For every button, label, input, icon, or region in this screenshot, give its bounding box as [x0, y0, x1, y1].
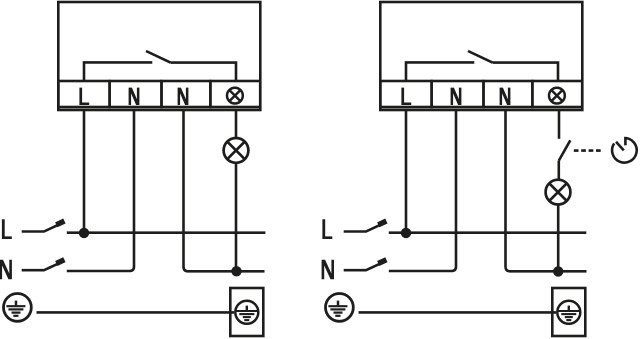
mains switch on N (right) — [344, 264, 380, 270]
wire from terminal N(2) down and to mains N switch (right) — [389, 110, 456, 271]
wire from lamp E1 down to node B — [235, 163, 238, 271]
lamp symbol on terminal X8 — [549, 88, 565, 104]
label N (terminal 2 U2) — [451, 88, 462, 105]
node C (junction dot on L right) — [401, 228, 411, 238]
earth terminal box PE2 — [230, 288, 263, 336]
label N (terminal 3 U2) — [500, 88, 511, 105]
terminal X8 (lamp output) box — [532, 81, 582, 107]
mains L wire — [67, 231, 266, 234]
label L (terminal) — [79, 88, 89, 105]
lamp symbol on terminal X4 — [227, 88, 243, 104]
lamp E1 — [224, 138, 249, 163]
mains switch on N — [22, 264, 58, 270]
earth symbol inside PE2 — [235, 301, 258, 324]
timer switch S3 blade — [559, 140, 571, 160]
lamp E2 — [546, 180, 571, 205]
timer icon T1 — [612, 137, 637, 163]
wire from switch S3 to lamp E2 — [557, 161, 560, 180]
earth symbol PE1 — [4, 294, 32, 322]
device box U2 — [380, 2, 582, 110]
earth symbol inside PE4 — [557, 301, 580, 324]
terminal X2 (N) box — [110, 81, 162, 107]
node D (junction dot on N right) — [553, 266, 563, 276]
label L (mains right) — [322, 219, 332, 239]
terminal X6 (N) box — [432, 81, 484, 107]
wire from lamp E2 down to node D — [557, 205, 560, 272]
node A (junction dot on L) — [79, 228, 89, 238]
terminal X5 (L) box — [380, 81, 431, 107]
node B (junction dot on N) — [231, 266, 241, 276]
wire from terminal L down to node A — [83, 110, 86, 230]
mains L wire (right) — [389, 231, 587, 234]
terminal X1 (L) box — [58, 81, 109, 107]
label L (mains) — [2, 219, 12, 239]
mains switch on L — [22, 225, 58, 231]
earth symbol PE3 — [326, 294, 354, 322]
terminal X7 (N) box — [484, 81, 533, 107]
wire from lamp terminal down to lamp E1 — [235, 110, 238, 138]
label N (mains right) — [322, 260, 334, 280]
internal relay switch S0 of U1 — [84, 51, 236, 81]
terminal X3 (N) box — [162, 81, 211, 107]
label N (terminal 3) — [178, 88, 189, 105]
earth wire — [37, 311, 235, 314]
label N (mains) — [0, 260, 12, 280]
dashed actuation link — [574, 149, 601, 152]
wire from lamp terminal down to timer switch S3 — [558, 110, 561, 139]
device box U1 — [58, 2, 260, 110]
label L (terminal U2) — [401, 88, 411, 105]
internal relay switch S0 of U2 — [406, 51, 558, 81]
wire from terminal L down to node C — [405, 110, 408, 230]
wire from terminal N(2) down and to mains N switch — [67, 110, 134, 271]
earth wire (right) — [359, 311, 557, 314]
earth terminal box PE4 — [552, 288, 585, 336]
label N (terminal 2) — [129, 88, 140, 105]
wire from terminal N(3) down to node D — [506, 110, 587, 271]
terminal X4 (lamp output) box — [210, 81, 260, 107]
mains switch on L (right) — [344, 225, 380, 231]
wire from terminal N(3) down to node B — [184, 110, 265, 271]
